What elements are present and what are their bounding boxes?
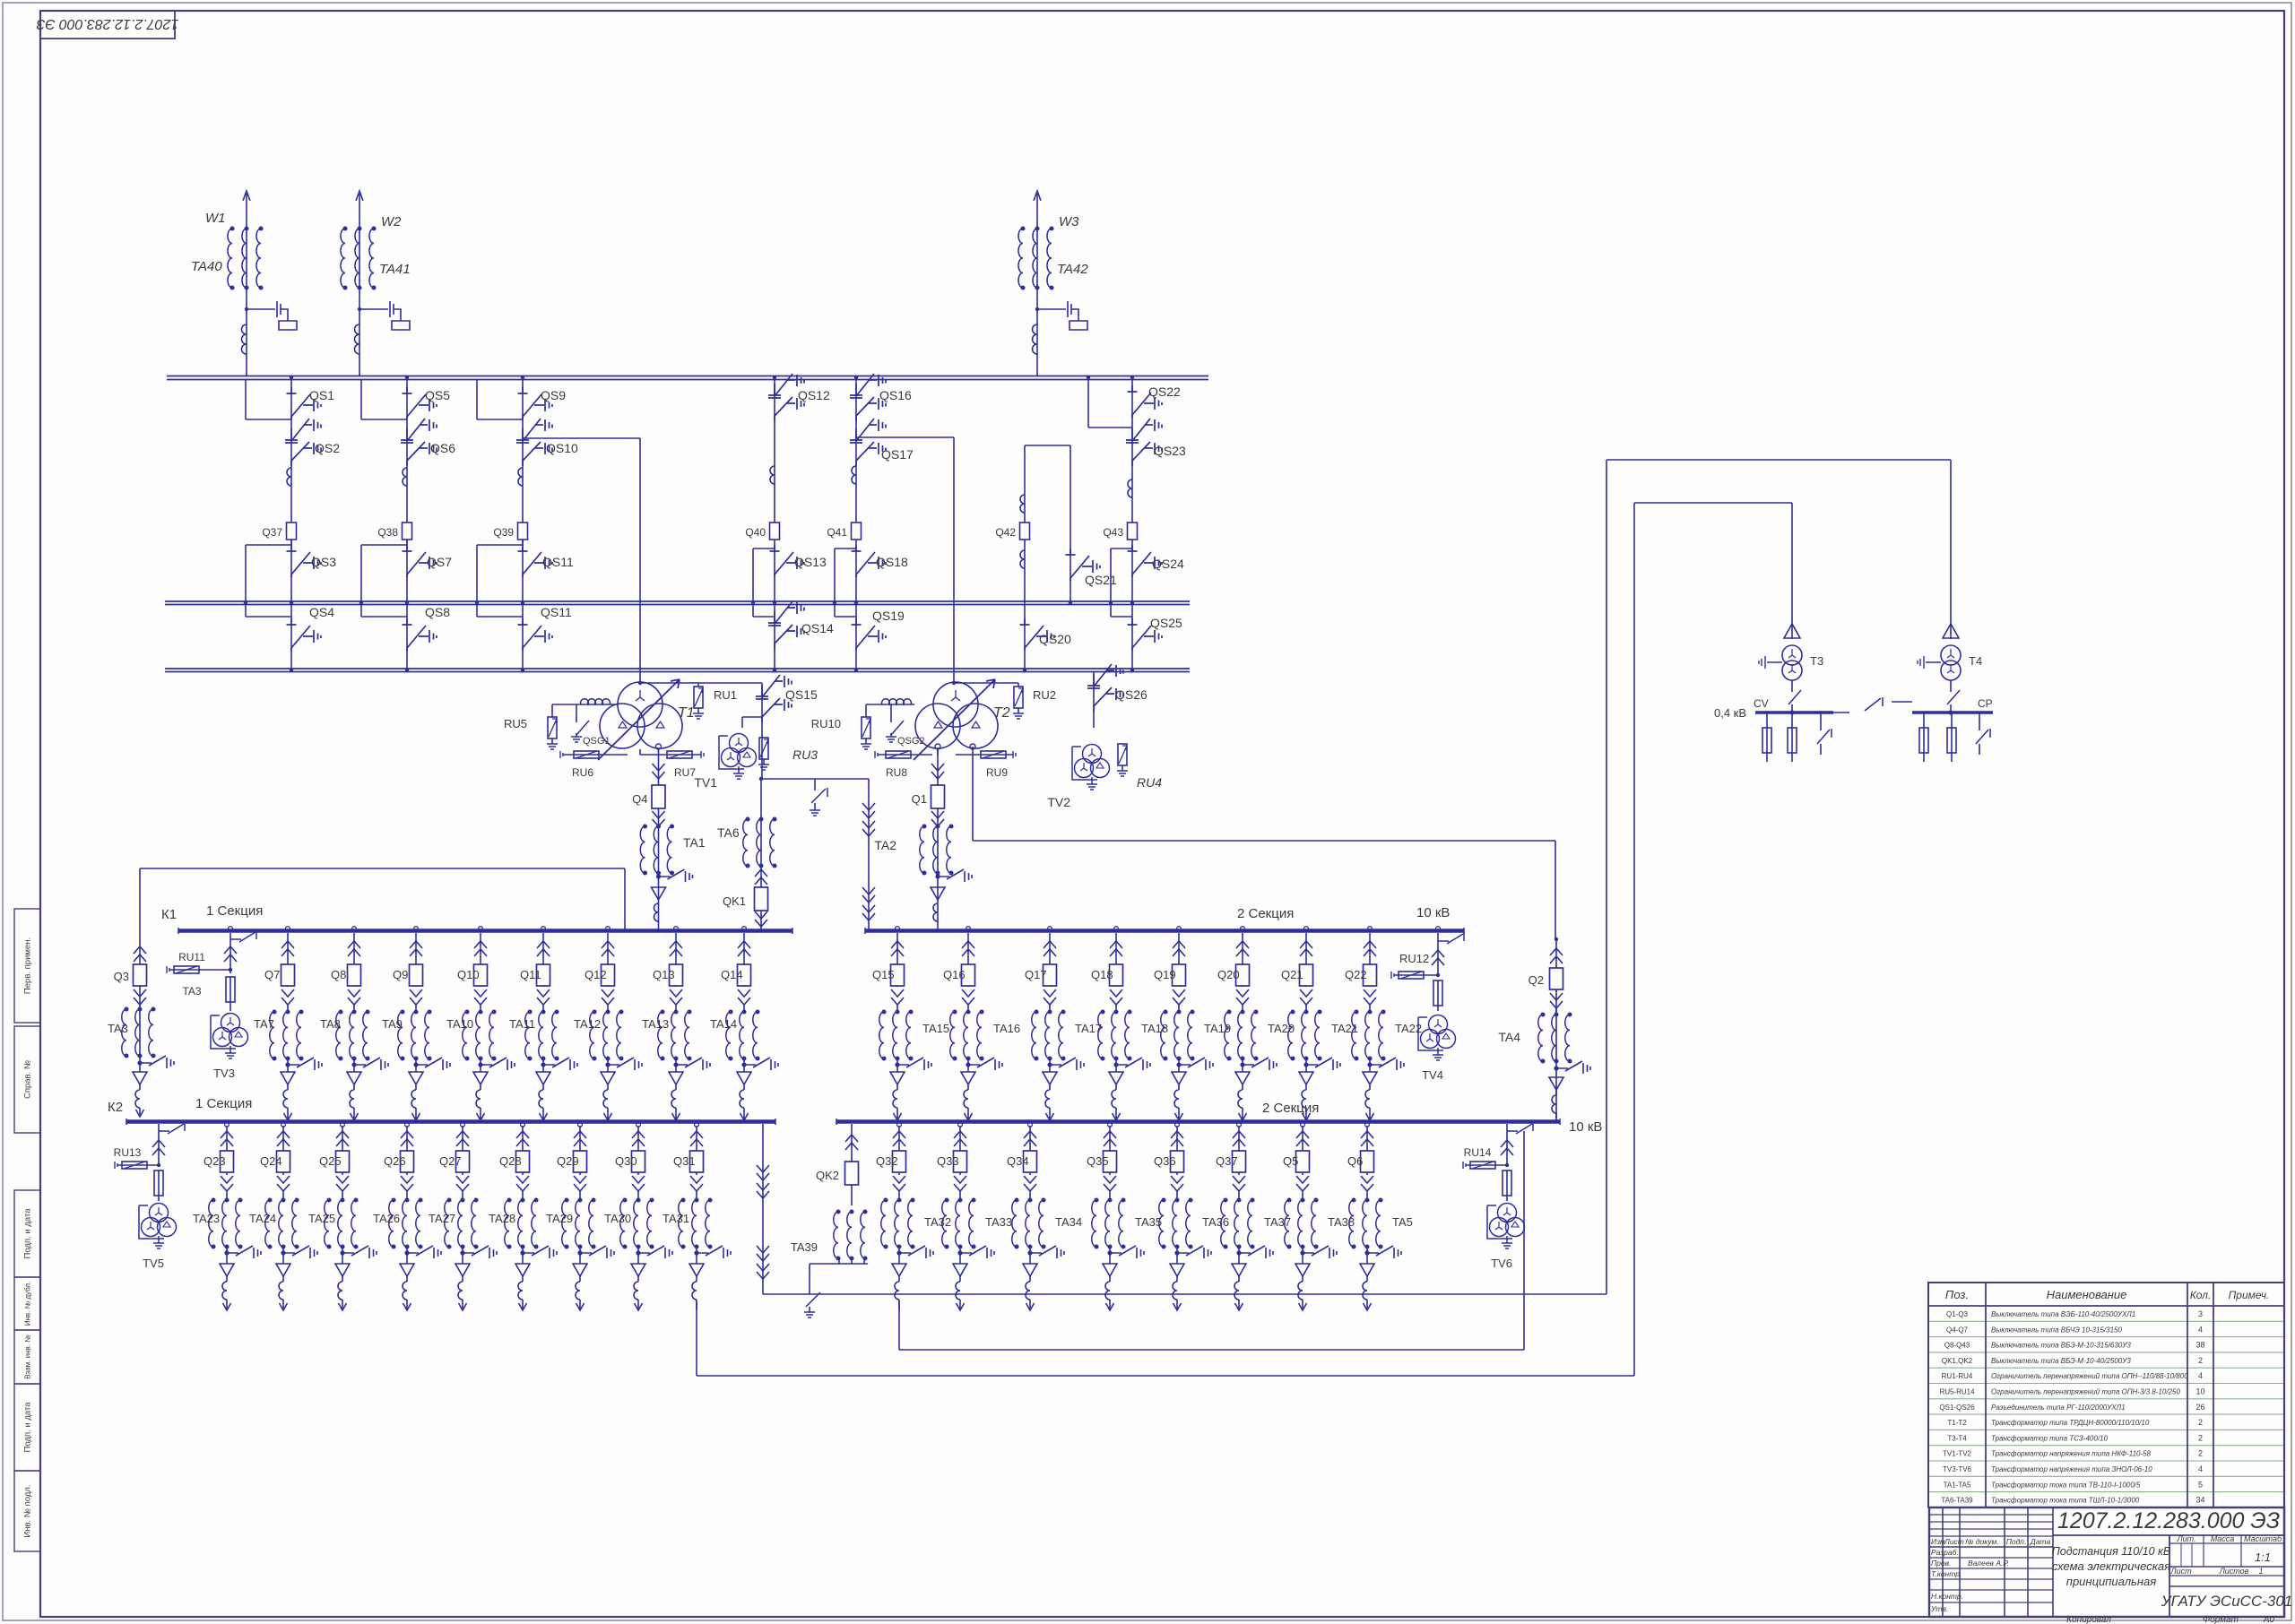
svg-text:Q10: Q10: [457, 968, 480, 981]
svg-text:TV6: TV6: [1491, 1257, 1512, 1270]
svg-text:Трансформатор типа ТСЗ-400/10: Трансформатор типа ТСЗ-400/10: [1991, 1434, 2108, 1442]
svg-text:W1: W1: [205, 211, 226, 226]
svg-text:Поз.: Поз.: [1945, 1288, 1969, 1301]
svg-text:1 Секция: 1 Секция: [206, 903, 263, 919]
svg-text:Q15: Q15: [872, 968, 895, 981]
svg-text:T1: T1: [678, 705, 695, 721]
svg-text:TV1: TV1: [694, 775, 717, 790]
svg-text:TA16: TA16: [993, 1022, 1020, 1035]
svg-text:RU10: RU10: [811, 717, 841, 730]
svg-text:QS23: QS23: [1154, 444, 1186, 458]
svg-text:10 кВ: 10 кВ: [1416, 905, 1450, 920]
svg-text:Q37: Q37: [1216, 1154, 1238, 1168]
svg-text:QS13: QS13: [794, 555, 827, 569]
svg-text:2: 2: [2198, 1433, 2203, 1442]
svg-text:Трансформатор типа ТРДЦН-80000: Трансформатор типа ТРДЦН-80000/110/10/10: [1991, 1419, 2150, 1427]
svg-text:Q40: Q40: [745, 526, 766, 539]
svg-text:QS18: QS18: [876, 555, 908, 569]
svg-text:QK1,QK2: QK1,QK2: [1942, 1357, 1973, 1365]
svg-text:Разъединитель типа РГ-110/2000: Разъединитель типа РГ-110/2000УХЛ1: [1991, 1404, 2126, 1412]
svg-text:TV3-TV6: TV3-TV6: [1943, 1465, 1972, 1473]
svg-text:Q23: Q23: [204, 1154, 226, 1168]
svg-text:Валеев А.Р.: Валеев А.Р.: [1968, 1559, 2009, 1568]
svg-text:TA32: TA32: [924, 1215, 951, 1229]
svg-text:Q28: Q28: [499, 1154, 522, 1168]
svg-text:1 Секция: 1 Секция: [195, 1096, 252, 1111]
svg-text:QS9: QS9: [541, 388, 566, 402]
svg-text:Трансформатор тока типа ТВ-110: Трансформатор тока типа ТВ-110-I-1000/5: [1991, 1481, 2141, 1489]
svg-text:QS8: QS8: [425, 605, 450, 619]
svg-text:Q18: Q18: [1091, 968, 1113, 981]
svg-text:TV2: TV2: [1047, 795, 1070, 809]
svg-text:QS20: QS20: [1039, 632, 1071, 646]
svg-text:4: 4: [2198, 1371, 2203, 1380]
svg-text:Справ. №: Справ. №: [23, 1060, 33, 1099]
svg-text:Подп. и дата: Подп. и дата: [23, 1402, 33, 1453]
svg-text:QS16: QS16: [879, 388, 912, 402]
svg-text:TA11: TA11: [509, 1017, 535, 1031]
svg-text:RU4: RU4: [1137, 775, 1162, 790]
svg-text:2: 2: [2198, 1418, 2203, 1427]
svg-text:Q13: Q13: [653, 968, 675, 981]
svg-text:А0: А0: [2263, 1615, 2275, 1624]
svg-text:№ докум.: № докум.: [1965, 1537, 1998, 1546]
svg-text:Выключатель типа ВЭБ-110-40/25: Выключатель типа ВЭБ-110-40/2500УХЛ1: [1991, 1310, 2135, 1318]
svg-text:34: 34: [2195, 1496, 2204, 1505]
svg-text:TA26: TA26: [373, 1212, 400, 1225]
svg-text:RU9: RU9: [986, 766, 1008, 779]
svg-text:26: 26: [2195, 1403, 2204, 1412]
svg-text:Кол.: Кол.: [2190, 1289, 2212, 1301]
svg-text:Q36: Q36: [1154, 1154, 1176, 1168]
svg-text:0,4 кВ: 0,4 кВ: [1714, 706, 1746, 720]
svg-text:Q27: Q27: [439, 1154, 462, 1168]
svg-text:Инв. № подл.: Инв. № подл.: [23, 1484, 33, 1537]
svg-text:Q3: Q3: [114, 970, 129, 983]
svg-text:К2: К2: [108, 1100, 123, 1115]
svg-text:Выключатель типа ВБЧЭ 10-315/3: Выключатель типа ВБЧЭ 10-315/3150: [1991, 1326, 2122, 1334]
svg-text:Q25: Q25: [319, 1154, 342, 1168]
svg-text:Пров.: Пров.: [1931, 1559, 1951, 1568]
svg-text:TV3: TV3: [213, 1067, 235, 1080]
svg-text:RU7: RU7: [674, 766, 696, 779]
svg-text:RU1: RU1: [714, 688, 737, 702]
svg-text:Q5: Q5: [1283, 1154, 1298, 1168]
svg-text:10: 10: [2195, 1387, 2204, 1396]
svg-text:Подстанция 110/10 кВ: Подстанция 110/10 кВ: [2052, 1545, 2171, 1558]
svg-text:Трансформатор напряжения типа: Трансформатор напряжения типа ЗНОЛ-06-10: [1991, 1465, 2152, 1473]
svg-text:Подп.: Подп.: [2006, 1537, 2027, 1546]
svg-text:Ограничитель перенапряжений ти: Ограничитель перенапряжений типа ОПН-3/3…: [1991, 1388, 2180, 1396]
svg-text:TA6-TA39: TA6-TA39: [1941, 1497, 1973, 1505]
svg-text:TA33: TA33: [985, 1215, 1012, 1229]
svg-text:TA24: TA24: [249, 1212, 276, 1225]
svg-text:QS4: QS4: [309, 605, 334, 619]
svg-text:CV: CV: [1754, 697, 1769, 710]
svg-text:TA6: TA6: [717, 825, 740, 840]
svg-text:Q26: Q26: [384, 1154, 406, 1168]
svg-text:2: 2: [2198, 1356, 2203, 1365]
svg-text:RU12: RU12: [1399, 952, 1429, 965]
svg-text:Q20: Q20: [1217, 968, 1240, 981]
svg-text:Q1-Q3: Q1-Q3: [1946, 1310, 1969, 1318]
svg-text:Q24: Q24: [260, 1154, 282, 1168]
svg-text:Ограничитель перенапряжений ти: Ограничитель перенапряжений типа ОПН--11…: [1991, 1372, 2188, 1380]
svg-text:Q38: Q38: [377, 526, 398, 539]
svg-text:QS6: QS6: [430, 441, 455, 455]
svg-text:QK1: QK1: [723, 894, 746, 908]
svg-text:T2: T2: [993, 705, 1010, 721]
svg-text:W3: W3: [1059, 214, 1079, 229]
svg-text:УГАТУ ЭСиСС-301: УГАТУ ЭСиСС-301: [2161, 1593, 2293, 1610]
svg-text:2: 2: [2198, 1449, 2203, 1458]
svg-text:TA3: TA3: [182, 985, 201, 998]
svg-text:TA13: TA13: [642, 1017, 669, 1031]
svg-text:QS14: QS14: [801, 621, 834, 635]
svg-text:Q2: Q2: [1529, 973, 1544, 987]
svg-text:TA40: TA40: [191, 259, 222, 274]
svg-text:Q37: Q37: [262, 526, 282, 539]
svg-text:QS12: QS12: [798, 388, 830, 402]
svg-text:T1-T2: T1-T2: [1947, 1419, 1967, 1427]
svg-text:QS7: QS7: [427, 555, 452, 569]
svg-text:QS1: QS1: [309, 388, 334, 402]
svg-text:RU6: RU6: [572, 766, 593, 779]
svg-text:QS10: QS10: [546, 441, 578, 455]
svg-text:TA28: TA28: [489, 1212, 515, 1225]
svg-text:TV4: TV4: [1422, 1068, 1443, 1082]
svg-text:Q8-Q43: Q8-Q43: [1944, 1342, 1970, 1350]
svg-text:Лист: Лист: [1944, 1537, 1964, 1546]
svg-text:Q8: Q8: [331, 968, 346, 981]
svg-text:QSG1: QSG1: [583, 736, 611, 747]
svg-text:T3: T3: [1810, 654, 1823, 668]
svg-text:Лист: Лист: [2169, 1567, 2192, 1576]
svg-text:Q29: Q29: [557, 1154, 579, 1168]
svg-text:Q22: Q22: [1345, 968, 1367, 981]
svg-text:Q30: Q30: [615, 1154, 637, 1168]
svg-text:Q7: Q7: [264, 968, 280, 981]
svg-text:RU5: RU5: [504, 717, 527, 730]
svg-text:RU14: RU14: [1464, 1146, 1492, 1159]
svg-text:TA7: TA7: [254, 1017, 274, 1031]
svg-text:TA27: TA27: [429, 1212, 455, 1225]
svg-text:RU11: RU11: [178, 951, 205, 963]
svg-text:RU3: RU3: [792, 747, 818, 762]
svg-text:TA2: TA2: [874, 838, 896, 852]
svg-text:Q4: Q4: [632, 792, 647, 806]
svg-text:Листов: Листов: [2219, 1567, 2249, 1576]
svg-text:Дата: Дата: [2030, 1537, 2051, 1546]
svg-text:TA25: TA25: [308, 1212, 335, 1225]
svg-text:Q42: Q42: [995, 526, 1016, 539]
svg-text:Q39: Q39: [493, 526, 514, 539]
svg-text:Масса: Масса: [2211, 1534, 2235, 1543]
svg-text:QSG2: QSG2: [897, 736, 925, 747]
svg-text:QS1-QS26: QS1-QS26: [1939, 1404, 1975, 1412]
svg-text:Q43: Q43: [1103, 526, 1123, 539]
svg-text:TA5: TA5: [1392, 1215, 1413, 1229]
svg-text:Q35: Q35: [1087, 1154, 1109, 1168]
svg-text:Трансформатор тока типа ТШЛ-10: Трансформатор тока типа ТШЛ-10-1/3000: [1991, 1497, 2140, 1505]
svg-text:TA1-TA5: TA1-TA5: [1944, 1481, 1971, 1489]
svg-text:Н.контр.: Н.контр.: [1931, 1592, 1963, 1601]
svg-text:TA1: TA1: [683, 835, 706, 850]
svg-text:принципиальная: принципиальная: [2066, 1575, 2156, 1588]
svg-text:Взам. инв. №: Взам. инв. №: [24, 1335, 32, 1379]
svg-text:Выключатель типа ВБЭ-М-10-40/2: Выключатель типа ВБЭ-М-10-40/2500У3: [1991, 1357, 2131, 1365]
svg-text:TA30: TA30: [604, 1212, 631, 1225]
svg-text:Подп. и дата: Подп. и дата: [23, 1208, 33, 1259]
svg-text:T4: T4: [1969, 654, 1982, 668]
svg-text:10 кВ: 10 кВ: [1569, 1119, 1602, 1135]
svg-text:QK2: QK2: [816, 1169, 839, 1182]
svg-text:TA36: TA36: [1202, 1215, 1229, 1229]
svg-text:Q33: Q33: [937, 1154, 959, 1168]
svg-text:Q9: Q9: [393, 968, 408, 981]
svg-text:Выключатель типа ВБЭ-М-10-315/: Выключатель типа ВБЭ-М-10-315/630У3: [1991, 1342, 2131, 1350]
svg-text:TA42: TA42: [1057, 262, 1088, 277]
svg-text:1:1: 1:1: [2255, 1551, 2271, 1564]
svg-text:Утв.: Утв.: [1930, 1604, 1948, 1613]
svg-text:Копировал: Копировал: [2066, 1615, 2111, 1624]
svg-text:Q11: Q11: [520, 968, 541, 981]
svg-text:TA10: TA10: [446, 1017, 473, 1031]
svg-text:Q32: Q32: [876, 1154, 898, 1168]
svg-text:Q21: Q21: [1281, 968, 1303, 981]
svg-text:QS3: QS3: [311, 555, 336, 569]
svg-text:Перв. примен.: Перв. примен.: [23, 937, 33, 994]
svg-text:RU1-RU4: RU1-RU4: [1942, 1372, 1973, 1380]
svg-text:Q19: Q19: [1154, 968, 1176, 981]
svg-text:3: 3: [2198, 1309, 2203, 1318]
svg-text:RU8: RU8: [886, 766, 907, 779]
svg-text:Q1: Q1: [912, 792, 927, 806]
svg-text:TA3: TA3: [108, 1022, 128, 1035]
svg-text:QS19: QS19: [872, 609, 905, 623]
svg-text:38: 38: [2195, 1341, 2204, 1350]
svg-text:QS21: QS21: [1085, 573, 1117, 587]
svg-text:QS17: QS17: [881, 447, 914, 462]
svg-text:Q34: Q34: [1007, 1154, 1029, 1168]
svg-text:Трансформатор напряжения типа: Трансформатор напряжения типа НКФ-110-58: [1991, 1450, 2152, 1458]
svg-text:Q16: Q16: [943, 968, 966, 981]
svg-text:TA23: TA23: [193, 1212, 220, 1225]
svg-text:QS11: QS11: [542, 555, 574, 569]
svg-text:4: 4: [2198, 1464, 2203, 1473]
svg-text:TA9: TA9: [382, 1017, 403, 1031]
svg-text:QS2: QS2: [315, 441, 340, 455]
svg-text:TA35: TA35: [1135, 1215, 1162, 1229]
svg-text:4: 4: [2198, 1325, 2203, 1334]
svg-text:схема электрическая: схема электрическая: [2052, 1559, 2170, 1573]
svg-text:QS25: QS25: [1150, 616, 1182, 630]
svg-text:TA14: TA14: [710, 1017, 737, 1031]
svg-text:QS11: QS11: [541, 605, 572, 619]
svg-text:QS5: QS5: [425, 388, 450, 402]
svg-text:Q17: Q17: [1025, 968, 1047, 981]
svg-text:RU13: RU13: [114, 1146, 142, 1159]
svg-text:RU5-RU14: RU5-RU14: [1939, 1388, 1975, 1396]
svg-text:Q12: Q12: [585, 968, 607, 981]
svg-text:К1: К1: [161, 907, 177, 922]
svg-text:QS24: QS24: [1152, 557, 1184, 571]
svg-text:TA8: TA8: [320, 1017, 341, 1031]
svg-text:CP: CP: [1978, 697, 1993, 710]
svg-text:RU2: RU2: [1033, 688, 1056, 702]
svg-text:Разраб.: Разраб.: [1931, 1548, 1959, 1557]
svg-text:W2: W2: [381, 214, 402, 229]
svg-text:TA29: TA29: [546, 1212, 573, 1225]
svg-text:TA12: TA12: [574, 1017, 601, 1031]
svg-text:TV5: TV5: [143, 1257, 164, 1270]
svg-text:Q31: Q31: [673, 1154, 696, 1168]
svg-text:Q14: Q14: [721, 968, 743, 981]
svg-text:Масштаб: Масштаб: [2244, 1534, 2282, 1543]
svg-text:Т.контр.: Т.контр.: [1931, 1569, 1962, 1578]
svg-text:QS26: QS26: [1115, 687, 1147, 702]
svg-text:Инв. № дубл.: Инв. № дубл.: [24, 1282, 32, 1326]
svg-text:TA15: TA15: [922, 1022, 949, 1035]
svg-text:5: 5: [2198, 1480, 2203, 1489]
svg-text:Изм: Изм: [1931, 1537, 1945, 1546]
svg-text:Лит.: Лит.: [2176, 1534, 2195, 1543]
svg-text:TA39: TA39: [791, 1240, 818, 1254]
svg-text:Q6: Q6: [1347, 1154, 1363, 1168]
svg-text:T3-T4: T3-T4: [1947, 1434, 1967, 1442]
svg-text:QS15: QS15: [785, 687, 818, 702]
svg-text:TA4: TA4: [1498, 1030, 1520, 1044]
svg-text:Q41: Q41: [827, 526, 847, 539]
svg-text:TA34: TA34: [1055, 1215, 1082, 1229]
svg-text:1207.2.12.283.000 ЭЗ: 1207.2.12.283.000 ЭЗ: [36, 16, 178, 31]
svg-text:TA31: TA31: [663, 1212, 689, 1225]
svg-text:Наименование: Наименование: [2047, 1288, 2127, 1301]
svg-text:QS22: QS22: [1148, 384, 1181, 399]
svg-text:TV1-TV2: TV1-TV2: [1943, 1450, 1972, 1458]
svg-text:Примеч.: Примеч.: [2229, 1289, 2270, 1301]
svg-text:1207.2.12.283.000 ЭЗ: 1207.2.12.283.000 ЭЗ: [2057, 1508, 2280, 1533]
svg-text:TA41: TA41: [379, 262, 411, 277]
svg-text:2 Секция: 2 Секция: [1237, 906, 1294, 921]
svg-text:1: 1: [2258, 1567, 2263, 1576]
svg-text:Формат: Формат: [2203, 1615, 2239, 1624]
svg-text:Q4-Q7: Q4-Q7: [1946, 1326, 1969, 1334]
